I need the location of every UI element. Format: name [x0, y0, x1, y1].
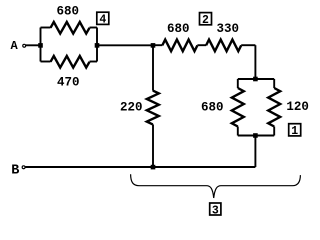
- resistor 220 lead bottom: [152, 124, 154, 167]
- resistor 220 lead top (from center node): [152, 45, 154, 90]
- wire down from second pair to bottom rail: [254, 136, 256, 168]
- resistor 680 (top of parallel pair) zigzag: [51, 22, 90, 34]
- svg-text:4: 4: [99, 14, 106, 27]
- resistor 680 (left of second pair) zigzag: [232, 88, 244, 127]
- resistor 330 zigzag: [206, 40, 241, 52]
- resistor 120 lead bottom: [273, 127, 275, 136]
- svg-text:1: 1: [291, 125, 298, 138]
- wire left bus of parallel pair (vertical): [40, 28, 42, 62]
- resistor 680 (top of parallel pair, section 4) lead left: [41, 27, 51, 29]
- junction dot at center node: [151, 43, 156, 48]
- resistor 680 (top of parallel pair) lead right: [90, 27, 98, 29]
- wire B bottom rail: [25, 166, 255, 168]
- wire down from series row to second parallel pair: [254, 45, 256, 79]
- marker box 2: [200, 13, 212, 25]
- svg-text:680: 680: [201, 101, 224, 115]
- svg-text:680: 680: [167, 22, 190, 36]
- junction dot at left bus of parallel pair: [38, 43, 43, 48]
- brace (section 3): [131, 174, 301, 198]
- svg-text:2: 2: [202, 14, 209, 27]
- marker box 1: [289, 124, 301, 136]
- resistor 120 (right of second pair, section 1) lead top: [273, 79, 275, 88]
- wire top rail of second parallel pair: [238, 78, 274, 80]
- marker box 3: [210, 203, 221, 215]
- resistor 120 zigzag: [268, 88, 280, 127]
- svg-text:120: 120: [286, 100, 309, 114]
- svg-text:220: 220: [120, 101, 143, 115]
- terminal A (open circle): [23, 44, 26, 47]
- resistor 470 lead right: [90, 61, 98, 63]
- resistor 680 (series, section 2) lead left: [153, 44, 162, 46]
- resistor 680 (left of second pair) lead bottom: [237, 127, 239, 136]
- resistor 220 zigzag: [147, 91, 159, 125]
- wire between series resistors: [197, 44, 206, 46]
- junction dot at right bus of parallel pair: [95, 43, 100, 48]
- wire A terminal to left bus: [26, 44, 41, 46]
- resistor 680 (series) zigzag: [162, 40, 197, 52]
- resistor 470 zigzag: [51, 56, 90, 68]
- svg-text:470: 470: [57, 75, 80, 89]
- junction dot at top rail of second parallel pair: [253, 77, 258, 82]
- resistor 470 (bottom of parallel pair) lead left: [41, 61, 51, 63]
- svg-text:680: 680: [57, 5, 80, 19]
- wire bottom rail of second parallel pair: [238, 135, 274, 137]
- junction dot at bottom rail of second parallel pair: [253, 133, 258, 138]
- terminal B (open circle): [22, 166, 25, 169]
- marker box 4: [97, 12, 109, 24]
- svg-text:B: B: [11, 163, 19, 178]
- junction dot at 220 resistor bottom: [151, 165, 156, 170]
- wire right bus of parallel pair (vertical): [96, 28, 98, 62]
- resistor 680 (left of second pair) lead top: [237, 79, 239, 88]
- resistor 330 lead right: [241, 44, 255, 46]
- wire right bus to center node: [97, 44, 153, 46]
- svg-text:3: 3: [212, 204, 219, 217]
- svg-text:330: 330: [217, 22, 240, 36]
- svg-text:A: A: [11, 39, 19, 53]
